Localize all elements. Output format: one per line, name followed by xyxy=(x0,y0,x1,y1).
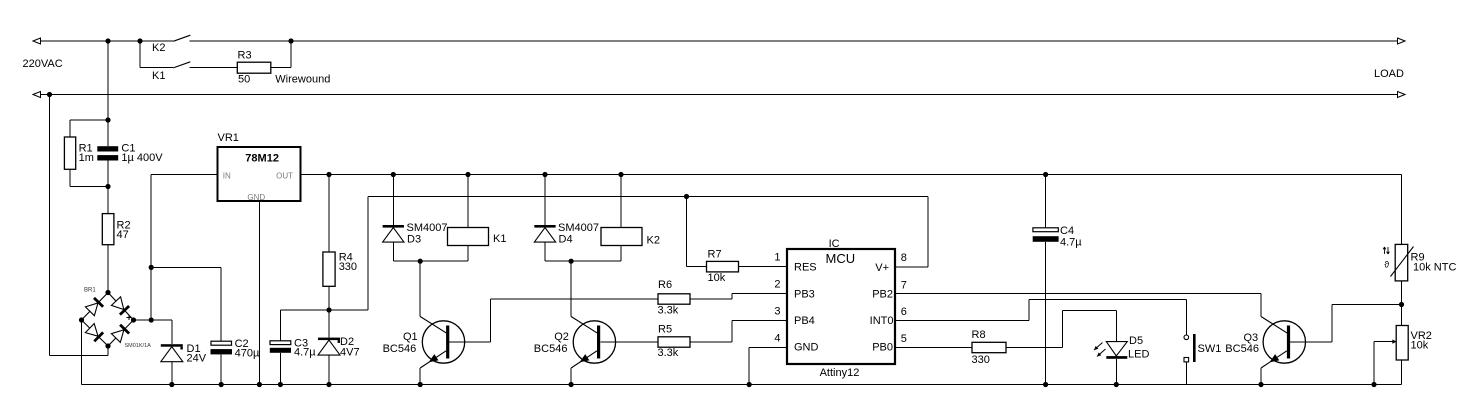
svg-text:SW1: SW1 xyxy=(1198,343,1222,355)
svg-text:LED: LED xyxy=(1128,349,1149,361)
ground rail xyxy=(82,384,1402,386)
svg-text:C4: C4 xyxy=(1060,225,1074,237)
wire R8 to LED D5 xyxy=(1006,311,1116,348)
svg-text:4: 4 xyxy=(774,332,780,344)
node +12 D4 xyxy=(542,172,547,177)
resistor R2 47 xyxy=(102,187,130,293)
node K1/D3/Q1 collector xyxy=(418,259,423,264)
node bridge left xyxy=(79,317,84,322)
node junction line2 x49.5 xyxy=(47,92,52,97)
svg-text:K2: K2 xyxy=(647,235,660,247)
resistor R8 330 xyxy=(972,329,1007,366)
node bridge right xyxy=(131,317,136,322)
resistor R7 10k xyxy=(687,197,788,285)
node bridge top xyxy=(105,290,110,295)
svg-text:BR1: BR1 xyxy=(84,288,96,294)
wire to C2 xyxy=(151,267,221,341)
diode D3 SM4007 xyxy=(383,175,448,262)
capacitor C4 4.7u xyxy=(1033,175,1083,385)
svg-text:R6: R6 xyxy=(658,279,672,291)
wire +12 down to R9 xyxy=(1401,175,1403,245)
svg-text:V+: V+ xyxy=(875,262,889,274)
label LOAD xyxy=(1374,68,1404,80)
wire Q2 base to R5 xyxy=(600,341,658,343)
svg-text:IN: IN xyxy=(223,172,231,181)
svg-text:R7: R7 xyxy=(708,249,722,261)
svg-text:50: 50 xyxy=(238,73,250,85)
node DC+ / C2 branch xyxy=(149,265,154,270)
svg-text:220VAC: 220VAC xyxy=(23,58,63,70)
node VR1 GND on rail xyxy=(257,382,262,387)
wire R3 back to line1 xyxy=(271,41,291,68)
zener diode D1 24V xyxy=(161,343,207,385)
svg-text:1: 1 xyxy=(774,252,780,264)
svg-text:BC546: BC546 xyxy=(383,343,417,355)
wire VR1 GND to rail xyxy=(258,201,260,385)
wire MCU PB0 pin 5 to R8 xyxy=(895,347,972,349)
svg-text:Attiny12: Attiny12 xyxy=(820,367,860,379)
node Q1 emitter on rail xyxy=(418,382,423,387)
node VR2 wiper on rail xyxy=(1371,382,1376,387)
transistor Q1 BC546 xyxy=(383,261,465,384)
wire K1 to R3 xyxy=(190,67,238,69)
wire bridge+ to D1 and VR1 IN xyxy=(134,175,218,321)
svg-text:RES: RES xyxy=(794,262,817,274)
wire R6 to MCU pin 2 xyxy=(690,294,787,300)
relay coil K1 xyxy=(420,175,506,262)
pin number 2 xyxy=(774,279,780,291)
node R1/C1 top xyxy=(105,117,110,122)
svg-text:VR1: VR1 xyxy=(218,132,239,144)
wire Q1 base to R6 xyxy=(449,299,658,342)
resistor R6 3.3k xyxy=(658,279,691,317)
node junction line1 x291 xyxy=(288,38,293,43)
svg-text:Q2: Q2 xyxy=(554,331,569,343)
pushbutton SW1 xyxy=(1184,334,1221,385)
transistor Q3 BC546 xyxy=(1225,317,1305,385)
svg-text:D5: D5 xyxy=(1129,335,1143,347)
svg-text:470µ: 470µ xyxy=(235,347,260,359)
wire C3 branch xyxy=(280,310,329,341)
svg-text:4.7µ: 4.7µ xyxy=(294,347,316,359)
potentiometer VR2 10k xyxy=(1374,326,1432,385)
svg-text:3.3k: 3.3k xyxy=(658,305,679,317)
node Q2 emitter on rail xyxy=(569,382,574,387)
resistor R4 330 xyxy=(323,175,357,311)
wire AC line 1 (220VAC hot) xyxy=(41,40,1397,42)
svg-text:MCU: MCU xyxy=(826,251,856,266)
svg-text:1m: 1m xyxy=(79,152,94,164)
wire drop from line1 to R1/C1 xyxy=(107,41,109,120)
node MCU GND on rail xyxy=(747,382,752,387)
svg-text:330: 330 xyxy=(972,354,990,366)
LED D5 xyxy=(1094,335,1149,385)
node +12 C4 xyxy=(1043,172,1048,177)
node R9/VR2 junction xyxy=(1399,281,1404,326)
resistor R3 50 Wirewound xyxy=(237,50,330,86)
svg-text:PB3: PB3 xyxy=(794,289,815,301)
wire +12V rail from VR1 OUT xyxy=(301,174,1402,176)
wire to D1 xyxy=(151,320,172,344)
svg-text:K1: K1 xyxy=(493,233,506,245)
svg-text:GND: GND xyxy=(794,342,819,354)
switch contact K1 xyxy=(152,62,190,82)
node R1/C1 bottom xyxy=(105,184,110,189)
svg-text:10k: 10k xyxy=(708,272,726,284)
pin number 1 xyxy=(774,252,780,264)
node C4 on rail xyxy=(1043,382,1048,387)
bridge rectifier BR1 xyxy=(82,288,152,350)
svg-text:10k NTC: 10k NTC xyxy=(1413,261,1456,273)
label 220VAC xyxy=(23,58,63,70)
svg-text:R3: R3 xyxy=(238,50,252,62)
svg-text:R8: R8 xyxy=(972,329,986,341)
resistor R5 3.3k xyxy=(658,324,691,360)
wire MCU GND pin 4 to rail xyxy=(749,348,787,385)
svg-text:PB4: PB4 xyxy=(794,315,815,327)
svg-text:R5: R5 xyxy=(658,324,672,336)
pin number 7 xyxy=(901,280,907,292)
svg-text:330: 330 xyxy=(339,261,357,273)
node D5 on rail xyxy=(1114,382,1119,387)
terminal arrow left line1 xyxy=(33,38,41,44)
node Q3 emitter on rail xyxy=(1258,382,1263,387)
svg-text:OUT: OUT xyxy=(276,172,293,181)
svg-text:K2: K2 xyxy=(152,42,165,54)
wire Q3 base to R9/VR2 junction xyxy=(1290,305,1402,343)
svg-text:D4: D4 xyxy=(559,234,573,246)
node R4/D2/C3 junction (VCC) xyxy=(326,307,331,312)
wire VCC down to MCU V+ pin 8 xyxy=(895,197,928,268)
svg-text:Q1: Q1 xyxy=(403,331,418,343)
node D1 on rail xyxy=(169,382,174,387)
svg-text:BC546: BC546 xyxy=(1225,343,1259,355)
svg-text:LOAD: LOAD xyxy=(1374,68,1404,80)
terminal arrow right line1 (to LOAD) xyxy=(1398,38,1406,44)
capacitor C2 470u xyxy=(211,338,260,384)
svg-text:10k: 10k xyxy=(1411,340,1429,352)
node K2/D4/Q2 collector xyxy=(569,259,574,264)
svg-text:3: 3 xyxy=(774,306,780,318)
node C3 on rail xyxy=(278,382,283,387)
svg-text:D3: D3 xyxy=(407,234,421,246)
wire line2 to bridge bottom xyxy=(50,95,109,356)
wire MCU INT0 pin 6 to SW1 xyxy=(895,299,1186,335)
terminal arrow right line2 (to LOAD) xyxy=(1398,92,1406,98)
svg-text:4V7: 4V7 xyxy=(340,346,360,358)
node C2 on rail xyxy=(219,382,224,387)
svg-text:K1: K1 xyxy=(152,70,165,82)
capacitor C1 1u 400V xyxy=(97,120,163,187)
svg-text:1µ 400V: 1µ 400V xyxy=(121,152,163,164)
svg-text:IC: IC xyxy=(829,238,840,250)
node +12 K2 coil xyxy=(618,172,623,177)
node bridge bottom xyxy=(105,343,110,348)
pin number 6 xyxy=(901,306,907,318)
wire AC line 2 (220VAC neutral) xyxy=(41,94,1397,96)
svg-text:INT0: INT0 xyxy=(870,315,894,327)
svg-text:6: 6 xyxy=(901,306,907,318)
capacitor C3 4.7u xyxy=(270,337,316,384)
wire R5 to MCU pin 3 xyxy=(690,321,787,343)
node +12 K1 coil xyxy=(465,172,470,177)
pin number 5 xyxy=(901,333,907,345)
voltage regulator VR1 78M12 xyxy=(218,132,301,202)
wire bridge left to ground rail xyxy=(81,320,83,385)
resistor R1 1m xyxy=(64,120,108,187)
svg-text:4.7µ: 4.7µ xyxy=(1060,237,1082,249)
svg-text:78M12: 78M12 xyxy=(245,153,279,165)
svg-text:BC546: BC546 xyxy=(534,343,568,355)
svg-text:24V: 24V xyxy=(187,353,207,365)
wire K1 branch down xyxy=(140,41,173,68)
svg-text:7: 7 xyxy=(901,280,907,292)
pin number 8 xyxy=(901,252,907,264)
svg-text:8: 8 xyxy=(901,252,907,264)
zener diode D2 4V7 xyxy=(318,310,360,385)
pin number 4 xyxy=(774,332,780,344)
svg-text:Wirewound: Wirewound xyxy=(275,73,330,85)
node +12 R4 xyxy=(326,172,331,177)
svg-text:2: 2 xyxy=(774,279,780,291)
node DC+ / D1 branch xyxy=(149,317,154,322)
diode D4 SM4007 xyxy=(534,175,599,262)
node D2 on rail xyxy=(326,382,331,387)
switch contact K2 xyxy=(152,35,190,54)
svg-text:47: 47 xyxy=(117,229,129,241)
pin number 3 xyxy=(774,306,780,318)
svg-text:GND: GND xyxy=(247,193,265,202)
node +12 D3 xyxy=(391,172,396,177)
node junction line1 x140 xyxy=(137,38,142,43)
svg-text:SM01K/1A: SM01K/1A xyxy=(125,343,152,349)
svg-text:SM4007: SM4007 xyxy=(558,222,599,234)
svg-text:PB0: PB0 xyxy=(872,342,893,354)
svg-text:5: 5 xyxy=(901,333,907,345)
node junction line1 x108 xyxy=(105,38,110,43)
terminal arrow left line2 xyxy=(33,92,41,98)
svg-text:3.3k: 3.3k xyxy=(658,347,679,359)
thermistor R9 10k NTC xyxy=(1383,244,1456,281)
relay coil K2 xyxy=(571,175,660,262)
svg-text:PB2: PB2 xyxy=(872,289,893,301)
svg-text:ϑ: ϑ xyxy=(1384,260,1389,270)
IC MCU Attiny12 xyxy=(787,238,895,379)
transistor Q2 BC546 xyxy=(534,261,616,384)
node VCC R7 xyxy=(684,194,689,199)
wire MCU PB2 pin 7 to Q3 collector xyxy=(895,294,1261,317)
svg-text:SM4007: SM4007 xyxy=(407,222,448,234)
wire VCC junction to VCC line xyxy=(329,197,928,311)
